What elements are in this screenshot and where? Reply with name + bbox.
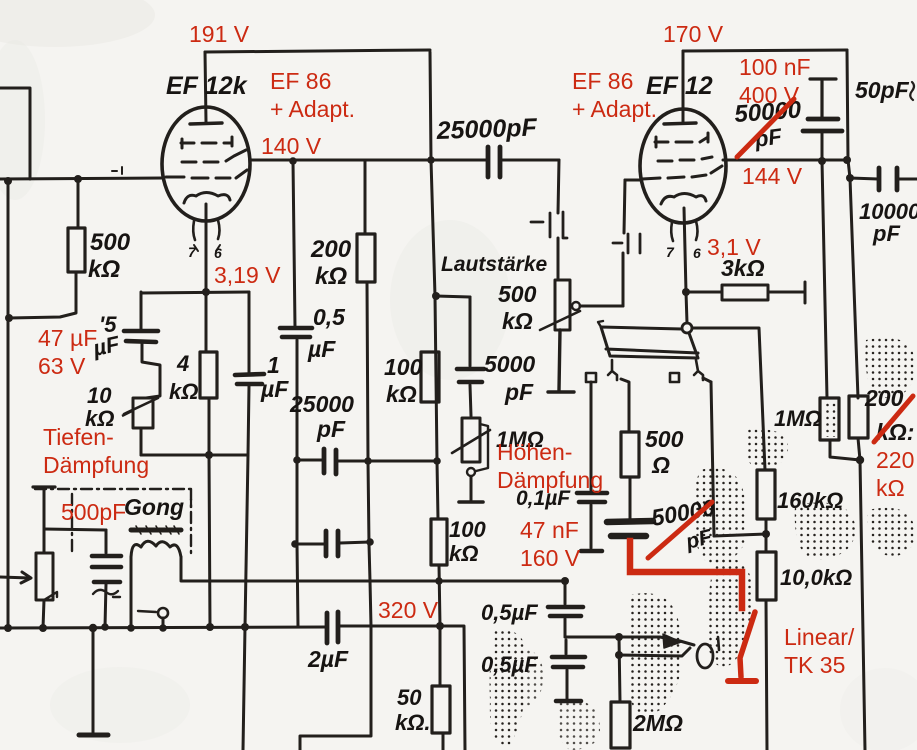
stipple blob under 0.5uF labels xyxy=(490,630,529,746)
wire 1M right top lead xyxy=(827,397,828,400)
svg-text:63 V: 63 V xyxy=(38,353,86,379)
resistor R 1M dotted fill xyxy=(820,398,839,440)
wire gong-box cap stem xyxy=(43,489,46,529)
trimmer C 500pF plates xyxy=(92,556,121,582)
wire anode V1 row (140 V) xyxy=(250,159,432,162)
resistor R 500k xyxy=(68,228,85,272)
wire hoehen pot bottom to chassis bar xyxy=(470,477,473,500)
svg-text:0,5µF: 0,5µF xyxy=(481,600,538,625)
svg-text:220: 220 xyxy=(876,447,914,473)
wire 0.5uF branch vertical x=295 xyxy=(293,161,298,627)
svg-text:200: 200 xyxy=(310,236,352,263)
resistor R 200k right xyxy=(849,396,868,438)
tube V1 grid g2 dashes xyxy=(182,150,246,162)
wire left rail vertical xyxy=(7,180,10,628)
wire cathode V1 lead down xyxy=(205,204,208,292)
resistor R 100k first xyxy=(421,352,439,402)
wire 5000pF chain down xyxy=(470,297,471,416)
wire switch output row A xyxy=(565,637,694,645)
svg-text:µF: µF xyxy=(260,376,289,402)
stipple blob right edge mid xyxy=(868,508,915,556)
tube V1 anode plate bar xyxy=(190,123,222,124)
wire coupling row to C 25000pF xyxy=(432,159,559,162)
svg-text:500: 500 xyxy=(645,426,684,452)
node ground rail at 50k branch xyxy=(436,622,444,630)
capacitor C 5uF cathode plates xyxy=(124,331,158,342)
switch contact mid square xyxy=(670,373,679,382)
gong dash-dot box xyxy=(35,489,191,556)
capacitor C 0.5uF screen plates xyxy=(280,328,312,337)
wire 500k bottom lead to left rail xyxy=(9,272,76,318)
wire 2M top lead xyxy=(619,637,620,702)
resistor R 160k xyxy=(757,470,775,519)
node coupling at main vertical xyxy=(427,156,435,164)
node tone ladder left top xyxy=(293,456,301,464)
wire 50000pF cap vertical into anode row xyxy=(822,133,827,398)
svg-text:6: 6 xyxy=(214,245,222,261)
tube V1 EF12k envelope xyxy=(162,107,250,221)
squiggle after 50pF label xyxy=(910,82,914,100)
wire x=210 vertical down to ground rail xyxy=(209,455,210,627)
wire 0.5uF tone cap row xyxy=(295,542,370,544)
red pointer diagonal to TK35 xyxy=(740,612,755,677)
tube V2 heater hooks xyxy=(671,221,697,241)
red slash at 200k right xyxy=(874,396,913,442)
capacitor C 1uF plates xyxy=(235,374,264,384)
chassis bar under volume pot xyxy=(548,330,574,392)
potentiometer volume wiper contact circle xyxy=(572,302,580,310)
svg-text:Dämpfung: Dämpfung xyxy=(497,467,603,493)
svg-text:Gong: Gong xyxy=(124,494,184,520)
capacitor C 0.5uF tone plates xyxy=(326,531,338,556)
svg-text:10,0kΩ: 10,0kΩ xyxy=(780,565,852,590)
svg-text:25000pF: 25000pF xyxy=(435,113,538,145)
wire switch row to 160k branch xyxy=(692,328,765,470)
svg-text:Höhen-: Höhen- xyxy=(497,439,572,465)
node cathode bottom row at 4k xyxy=(205,451,213,459)
potentiometer 10k wiper slash xyxy=(124,398,158,414)
svg-text:2MΩ: 2MΩ xyxy=(632,710,683,736)
svg-text:pF: pF xyxy=(872,221,900,246)
svg-text:kΩ: kΩ xyxy=(386,381,417,407)
svg-text:EF 86: EF 86 xyxy=(270,68,331,94)
svg-text:+ Adapt.: + Adapt. xyxy=(572,96,657,122)
potentiometer hoehen wiper slash xyxy=(452,430,490,453)
red slash at 50000 tone label xyxy=(648,502,712,558)
svg-text:191 V: 191 V xyxy=(189,21,250,47)
pin lead marks under V1 xyxy=(194,245,220,251)
svg-text:500: 500 xyxy=(498,281,537,307)
tube V1 cathode arc xyxy=(184,193,230,204)
node ground rail at left rail xyxy=(4,624,12,632)
resistor R 500ohm xyxy=(621,432,639,477)
wire 4k bottom lead xyxy=(208,398,211,455)
node cathode V1 (3,19 V) xyxy=(202,288,210,296)
svg-text:4: 4 xyxy=(176,351,189,376)
potentiometer volume wiper slash xyxy=(540,311,580,330)
tube V1 grid g3 dashes xyxy=(181,137,232,148)
svg-text:47 nF: 47 nF xyxy=(520,517,579,543)
ground bar bottom-left xyxy=(79,733,108,738)
node tone ladder right upper xyxy=(364,457,372,465)
wire 200k top lead xyxy=(364,161,367,234)
node tone ladder left bottom xyxy=(291,540,299,548)
node row B at 2M branch xyxy=(615,651,623,659)
tube V1 grid g1 dashes xyxy=(166,170,247,178)
svg-text:+ Adapt.: + Adapt. xyxy=(270,96,355,122)
svg-text:1: 1 xyxy=(267,352,280,378)
capacitor C 0.5uF pair upper plates xyxy=(548,607,583,616)
wire 1uF branch upper xyxy=(248,292,251,372)
wire x=246 vertical down to ground rail and off bottom xyxy=(243,455,248,750)
svg-text:25000: 25000 xyxy=(289,391,354,417)
wire switch right contact vertical x=714 xyxy=(711,382,714,536)
capacitor C 25000pF coupling plates xyxy=(488,147,500,177)
wire grid V2 vertical down to volume wiper xyxy=(623,180,625,306)
svg-text:0,5µF: 0,5µF xyxy=(481,652,538,677)
node 220k junction xyxy=(856,456,864,464)
stipple patch left of 0.5uF pair xyxy=(512,649,543,705)
resistor R 200k xyxy=(357,234,375,282)
wire right edge vertical down off bottom xyxy=(860,460,865,750)
node cathode V2 (3,1 V) xyxy=(682,288,690,296)
svg-text:kΩ: kΩ xyxy=(502,308,533,334)
wire 1M bottom to 220k junction xyxy=(830,440,860,460)
svg-text:160 V: 160 V xyxy=(520,545,581,571)
capacitor C 50000pF (100nF) top bar xyxy=(810,79,836,117)
switch wafer left corner tick xyxy=(598,321,603,327)
potentiometer 10k body xyxy=(133,398,153,428)
svg-text:1MΩ: 1MΩ xyxy=(774,406,822,431)
node left-rail top junction xyxy=(4,177,12,185)
resistor R 10k linear xyxy=(757,552,776,600)
svg-text:kΩ.: kΩ. xyxy=(395,710,431,735)
wire 3k end bar xyxy=(804,282,807,303)
tube V1 heater hooks xyxy=(193,220,219,240)
svg-text:2µF: 2µF xyxy=(307,646,349,672)
switch wafer body parallelogram xyxy=(601,327,698,358)
tick marks above grid wire xyxy=(112,167,122,174)
wire 4k top lead xyxy=(205,292,208,352)
resistor R 100k second xyxy=(431,519,447,565)
stipple blob around 2M arrow xyxy=(628,593,683,716)
svg-text:100 nF: 100 nF xyxy=(739,54,811,80)
svg-text:EF 86: EF 86 xyxy=(572,68,633,94)
svg-text:7: 7 xyxy=(666,244,675,260)
contact switch on grid V2 line xyxy=(613,234,640,253)
wire 3k row xyxy=(686,291,804,294)
wire grid line V1 (node at 140V row) xyxy=(0,178,163,179)
svg-text:500pF: 500pF xyxy=(61,499,126,525)
svg-text:5000: 5000 xyxy=(484,351,535,377)
wire 5uF to 10k pot jog xyxy=(142,344,160,398)
node anode V2 at right rail xyxy=(843,156,851,164)
node row A at 2M branch xyxy=(615,633,623,641)
svg-text:170 V: 170 V xyxy=(663,21,724,47)
switch contact outer square with stem xyxy=(586,373,596,382)
svg-text:10: 10 xyxy=(87,383,112,408)
svg-text:200: 200 xyxy=(864,385,904,411)
node tone row at main vertical xyxy=(433,457,441,465)
switch contact left hook xyxy=(608,360,617,380)
potentiometer hoehen 1M body xyxy=(462,418,480,462)
svg-text:320 V: 320 V xyxy=(378,597,439,623)
capacitor C 50000pF plates xyxy=(803,119,842,131)
wire 500ohm bottom lead xyxy=(629,477,632,519)
wire top supply rail right (170 V) xyxy=(683,50,847,51)
node long row at 0.5uF pair xyxy=(561,577,569,585)
wire tube V2 anode-top lead xyxy=(682,51,685,122)
wire 10k pot bottom xyxy=(140,428,143,455)
wire volume wiper arm xyxy=(580,305,623,308)
node tone ladder right lower xyxy=(366,538,374,546)
svg-text:500: 500 xyxy=(90,229,131,256)
svg-text:144 V: 144 V xyxy=(742,163,803,189)
capacitor C 0.1uF plates xyxy=(577,493,607,502)
wire main long vertical x=430 (supply dropper chain) xyxy=(430,52,443,750)
gong terminal circle and dash xyxy=(158,608,168,618)
svg-text:100: 100 xyxy=(449,517,486,542)
svg-text:50: 50 xyxy=(397,685,422,710)
wire treble tap row from main vertical xyxy=(436,296,470,297)
wire 200k chain vertical x=368 xyxy=(300,282,371,750)
svg-text:Dämpfung: Dämpfung xyxy=(43,452,149,478)
wire top supply rail left (191 V) xyxy=(205,50,430,52)
stipple blob right of 10k linear xyxy=(795,503,856,561)
node ground rail at gong left leg xyxy=(127,624,135,632)
wire 10k-linear chain down off bottom xyxy=(766,534,767,750)
node right rail at 10000pF xyxy=(846,174,854,182)
node gong pot bottom xyxy=(39,624,47,632)
wire right rail vertical xyxy=(847,50,858,398)
svg-text:Linear/: Linear/ xyxy=(784,624,855,650)
svg-text:50pF: 50pF xyxy=(855,77,910,103)
chassis bar under hoehen pot xyxy=(459,500,483,504)
stipple blob under 160k to 10k xyxy=(708,558,753,666)
potentiometer hoehen side link xyxy=(476,424,488,471)
svg-text:Ω: Ω xyxy=(651,452,670,478)
node ground rail at chassis drop xyxy=(89,624,97,632)
svg-text:µF: µF xyxy=(307,336,336,362)
resistor R 50k xyxy=(432,686,450,733)
tube V2 anode plate bar xyxy=(664,123,696,124)
stipple patch bottom middle xyxy=(558,699,600,750)
svg-text:47 µF: 47 µF xyxy=(38,325,97,351)
switch wafer circle xyxy=(682,323,692,333)
wire 25000pF down to volume pot xyxy=(558,160,559,280)
wire anode V2 row (144 V) xyxy=(723,159,848,162)
wire gong trimmer bottom stem xyxy=(105,584,106,627)
potentiometer gong body xyxy=(36,553,53,600)
resistor R 4k xyxy=(200,352,217,398)
tube V2 grid g2 dashes xyxy=(658,157,712,161)
svg-text:kΩ: kΩ xyxy=(876,475,905,501)
ground bar under 0.1uF xyxy=(581,549,602,554)
wire grid V2 stub xyxy=(625,179,641,182)
svg-text:TK 35: TK 35 xyxy=(784,652,845,678)
contact pair on volume line xyxy=(531,212,567,238)
wire gong pot top stem xyxy=(43,529,46,553)
gong cap top bar xyxy=(33,485,55,488)
wire 500ohm top lead from switch contact xyxy=(621,379,629,432)
capacitor C 10000pF plates xyxy=(879,168,897,190)
potentiometer hoehen bottom contact circle xyxy=(467,468,475,476)
node 140V at 0.5uF branch xyxy=(289,157,297,165)
wire cathode V2 lead down xyxy=(684,208,687,323)
wire 0.1uF stem from switch contact xyxy=(590,382,593,548)
gong transformer winding humps xyxy=(131,541,181,557)
wire top-left input box xyxy=(0,88,30,179)
capacitor C 2uF plates on rail xyxy=(327,612,338,643)
tube V2 grid g3 dashes xyxy=(655,133,708,147)
svg-text:100: 100 xyxy=(384,354,423,380)
gong transformer hatched bar xyxy=(131,528,181,533)
wire gong trimmer top stem xyxy=(105,530,108,553)
resistor R 3k horizontal xyxy=(722,285,768,300)
wire 200k right bottom to junction xyxy=(858,438,860,460)
svg-text:kΩ: kΩ xyxy=(169,379,198,404)
trimmer C 500pF squiggle xyxy=(93,590,120,597)
pickup contact tick xyxy=(718,637,719,650)
svg-text:kΩ: kΩ xyxy=(449,541,478,566)
wire 500k top lead xyxy=(77,179,80,228)
potentiometer gong wiper tick xyxy=(44,592,57,600)
svg-text:EF 12k: EF 12k xyxy=(166,72,248,100)
node treble tap xyxy=(432,292,440,300)
node ground rail at gong terminal xyxy=(159,624,167,632)
wire gong-box top row xyxy=(44,529,106,530)
tube V2 grid g1 dashes xyxy=(642,166,722,179)
node ground rail at x=245 xyxy=(241,623,249,631)
capacitor C 50000pF tone plates thick xyxy=(607,521,653,536)
wire ground rail (320 V row) xyxy=(0,626,465,750)
wire cathode network bottom row xyxy=(141,454,248,457)
svg-text:kΩ: kΩ xyxy=(88,256,120,283)
wire switch right contact diagonal xyxy=(703,378,711,382)
svg-text:kΩ: kΩ xyxy=(315,263,347,290)
node long row at 100k drop xyxy=(435,577,443,585)
svg-text:3,19 V: 3,19 V xyxy=(214,262,281,288)
wire 10000pF output row xyxy=(850,178,917,179)
svg-text:Lautstärke: Lautstärke xyxy=(441,253,548,276)
svg-text:0,5: 0,5 xyxy=(313,304,346,330)
pickup contact oval xyxy=(697,644,713,668)
wire gong coil left leg xyxy=(130,557,133,628)
svg-text:140 V: 140 V xyxy=(261,133,322,159)
tube V2 cathode arc xyxy=(661,194,706,205)
wire gong wiper feed with arrowhead xyxy=(0,577,30,578)
arrow head on switch row A xyxy=(663,634,681,648)
svg-text:3,1 V: 3,1 V xyxy=(707,234,761,260)
svg-text:160kΩ: 160kΩ xyxy=(777,488,843,513)
wire long row y=581 to tone caps xyxy=(181,580,565,583)
wire switch output row B xyxy=(619,648,690,656)
switch contact right hook xyxy=(694,360,703,380)
stipple patch above 160k label xyxy=(744,429,788,468)
node grid V1 junction xyxy=(74,175,82,183)
svg-text:7: 7 xyxy=(188,244,197,260)
wire 5uF branch upper xyxy=(140,292,143,330)
node 160k bottom junction xyxy=(762,530,770,538)
wire gong terminal stem xyxy=(162,618,165,628)
capacitor C 5000pF plates xyxy=(457,369,484,382)
svg-text:6: 6 xyxy=(693,245,701,261)
red pointer polyline from tone cap xyxy=(630,541,742,608)
wire 0.5uF pair verticals xyxy=(565,581,567,699)
tube V2 EF12 envelope xyxy=(640,109,726,223)
ground bar under 0.5uF pair xyxy=(556,699,581,704)
wire gong pot bottom stem xyxy=(43,600,44,628)
potentiometer volume 500k body xyxy=(555,280,570,330)
label pot 10k pointer xyxy=(122,410,134,416)
node ground rail at trimmer stem xyxy=(101,623,109,631)
wire 1uF bottom lead xyxy=(248,386,249,455)
resistor R 2M xyxy=(611,702,630,748)
wire cathode V1 network top row xyxy=(141,292,249,293)
wire gong coil right leg to long row xyxy=(180,557,183,580)
stipple blob left of 160k xyxy=(693,468,748,564)
wire junction row 714 to 766 xyxy=(714,534,766,536)
svg-text:Tiefen-: Tiefen- xyxy=(43,424,114,450)
node left rail at 500k return xyxy=(5,314,13,322)
wire chassis ground drop x=93 xyxy=(92,628,95,733)
wire tube V1 anode-top lead xyxy=(205,52,206,122)
node ground rail at x=210 xyxy=(206,623,214,631)
svg-text:pF: pF xyxy=(504,379,534,405)
capacitor C 25000pF tone plates xyxy=(324,449,336,474)
capacitor C 0.5uF pair lower plates xyxy=(552,657,585,667)
node anode V2 at 50000pF cap xyxy=(818,157,826,165)
stipple blob top right under 200k xyxy=(865,338,915,398)
wire 160k bottom to junction xyxy=(765,519,768,534)
wire 25000pF tone cap row xyxy=(297,460,437,461)
red slash at 50000pF top xyxy=(737,99,794,157)
svg-text:pF: pF xyxy=(316,416,346,442)
